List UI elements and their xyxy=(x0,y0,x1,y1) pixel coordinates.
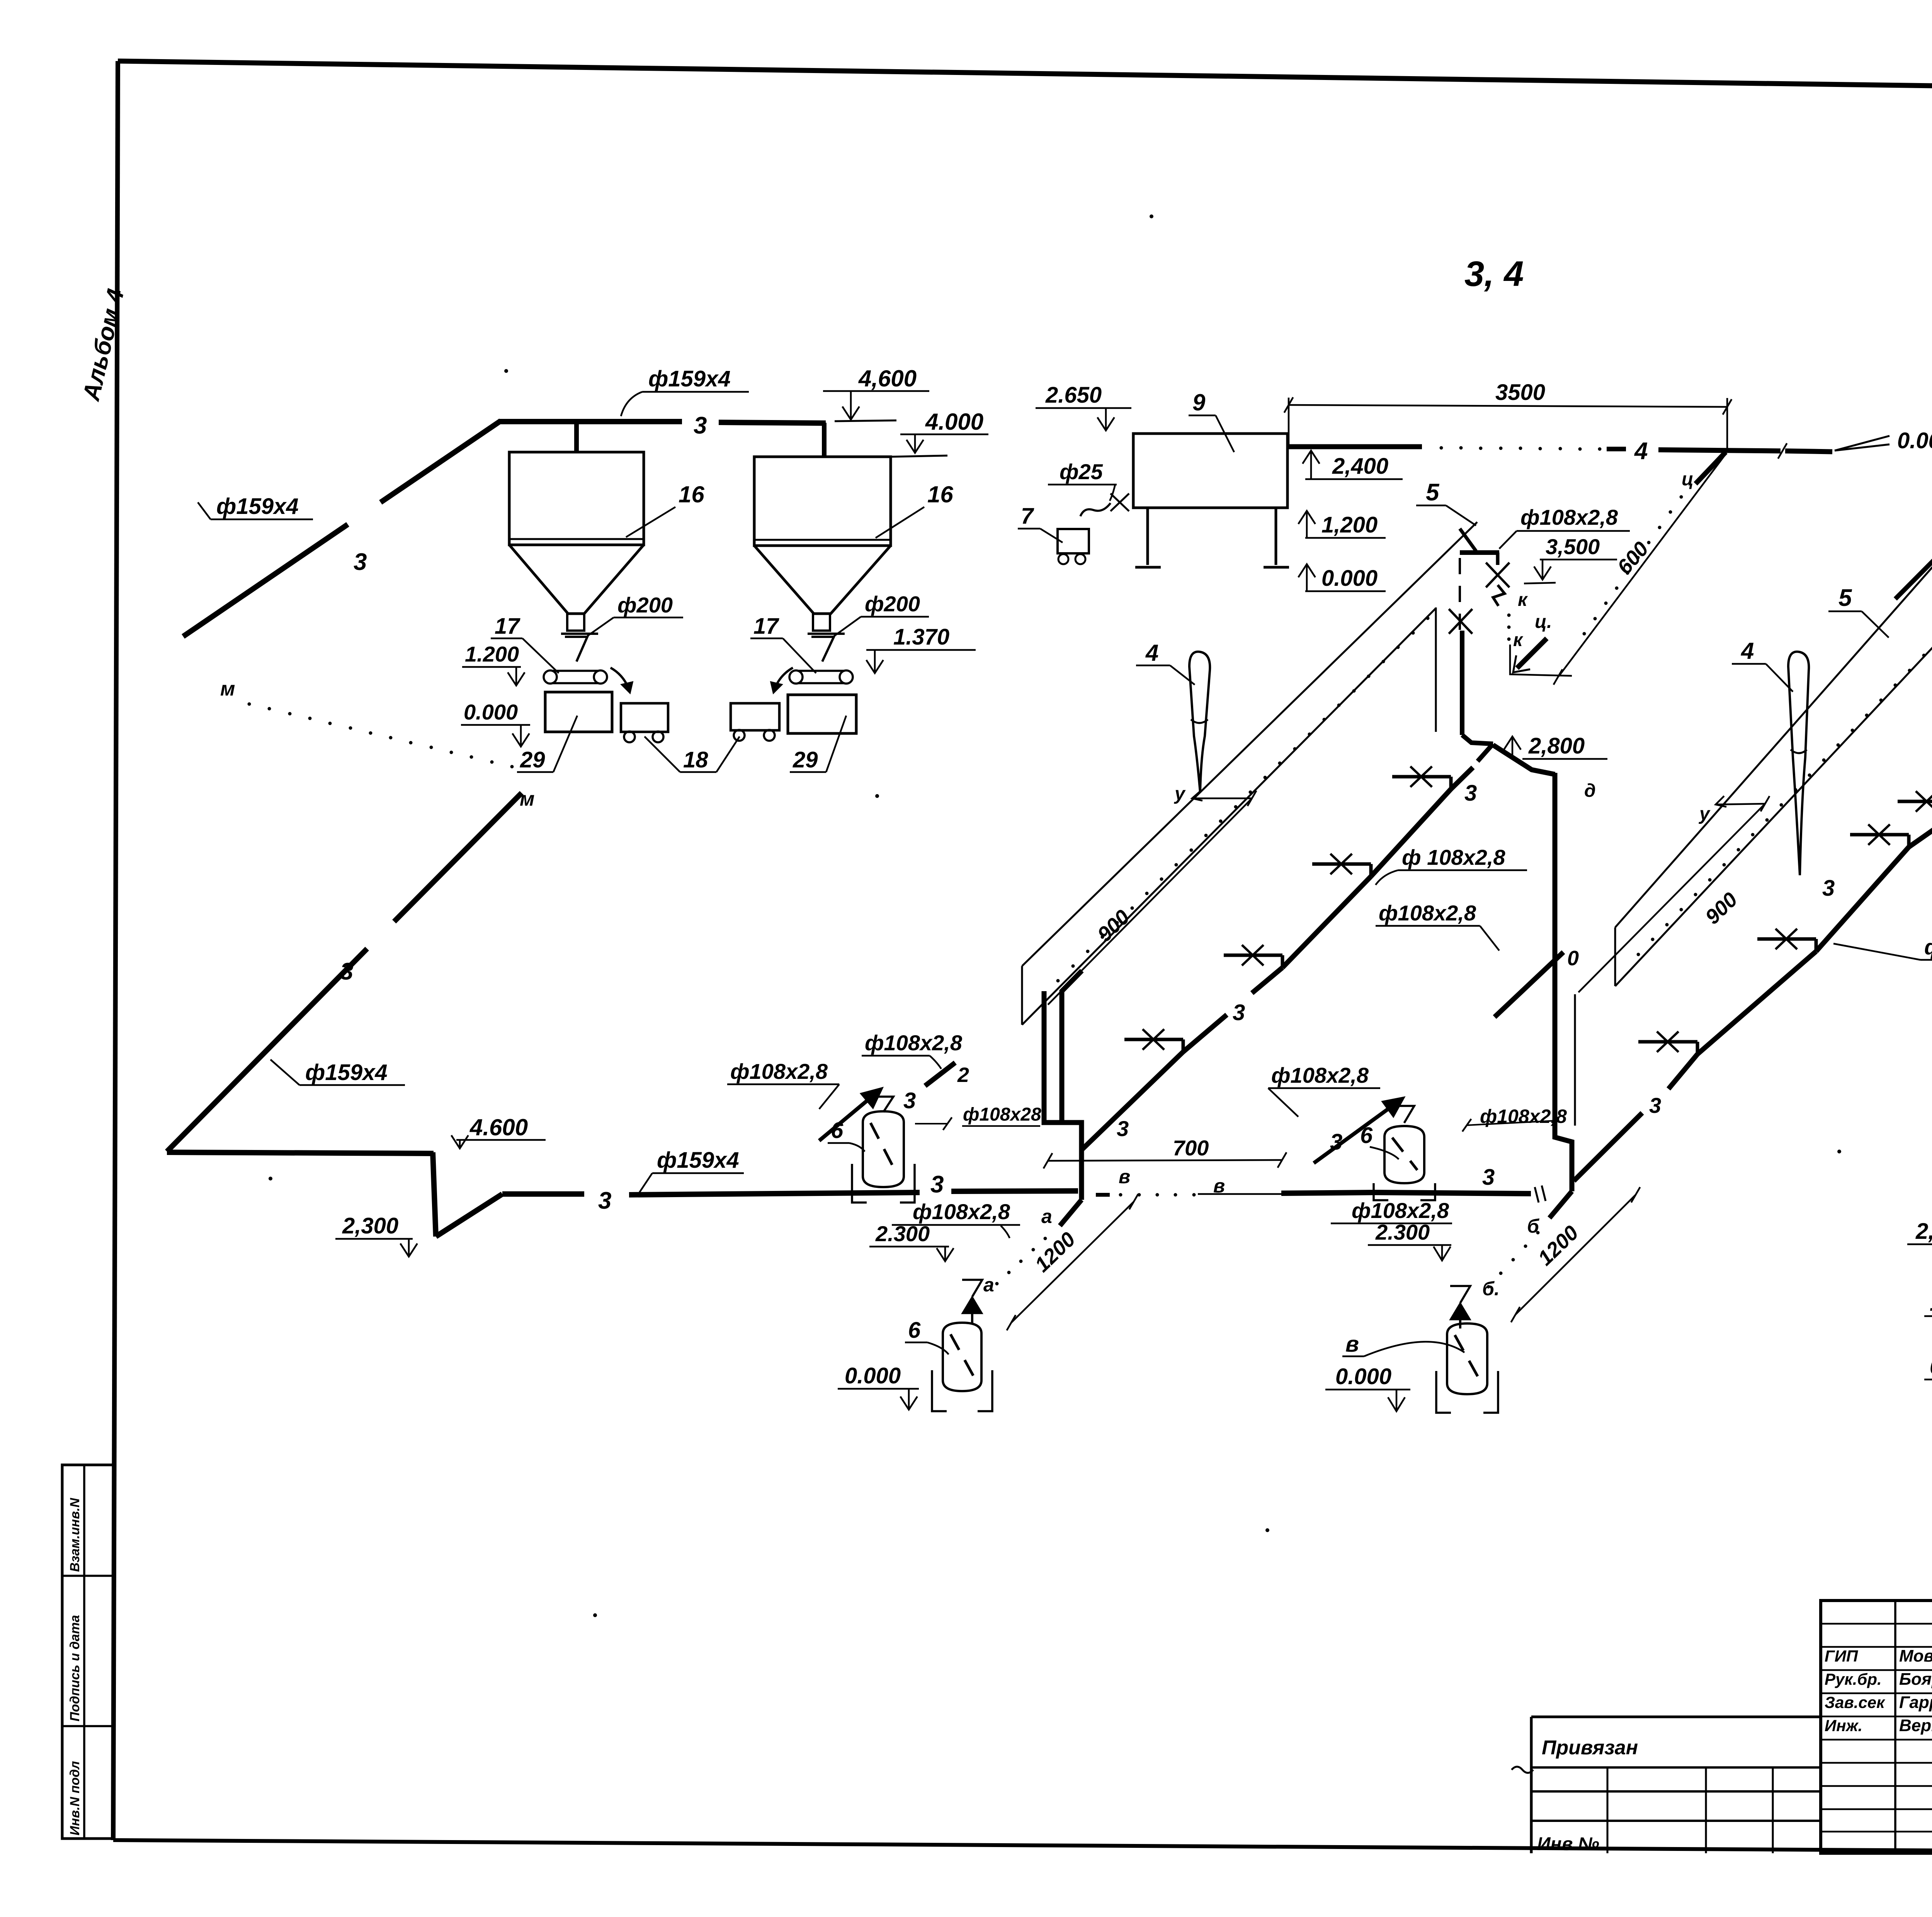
svg-text:Инж.: Инж. xyxy=(1825,1716,1862,1735)
second valve left cluster xyxy=(1449,609,1473,621)
tank 6 upper right xyxy=(1384,1126,1424,1183)
svg-text:3: 3 xyxy=(340,958,353,985)
tap valve 1 left branch xyxy=(1182,1039,1185,1052)
cart 7 left xyxy=(1058,529,1089,553)
thin diagonal from vent base right xyxy=(1578,804,1765,992)
svg-text:0.000: 0.000 xyxy=(464,700,518,724)
svg-text:9: 9 xyxy=(1192,390,1206,415)
tap valve 3 right branch xyxy=(1907,835,1911,847)
svg-text:4: 4 xyxy=(1145,640,1158,666)
svg-text:1.370: 1.370 xyxy=(893,624,949,650)
svg-text:4.600: 4.600 xyxy=(469,1114,528,1140)
svg-text:6: 6 xyxy=(908,1318,921,1343)
svg-text:700: 700 xyxy=(1173,1136,1209,1160)
svg-text:2.300: 2.300 xyxy=(875,1221,930,1246)
svg-text:3: 3 xyxy=(694,412,707,439)
dim 700 xyxy=(1048,1160,1282,1161)
svg-text:Инв.N подл: Инв.N подл xyxy=(68,1761,82,1835)
svg-text:1200: 1200 xyxy=(1031,1228,1080,1277)
wall band left end verticals xyxy=(1021,966,1023,1025)
svg-text:1,200: 1,200 xyxy=(1321,512,1378,538)
svg-text:2,400: 2,400 xyxy=(1332,454,1388,479)
wall band left dotted axis xyxy=(1042,993,1045,997)
pipe 4 main from unit 9 xyxy=(1288,444,1422,449)
svg-text:Подпись и дата: Подпись и дата xyxy=(68,1615,82,1721)
svg-text:ф159х4: ф159х4 xyxy=(657,1148,739,1173)
svg-text:Мовтаников: Мовтаников xyxy=(1899,1647,1932,1665)
svg-text:ф159х4: ф159х4 xyxy=(648,366,731,391)
tilde mark xyxy=(1512,1767,1533,1773)
valve at unit9 inlet xyxy=(1111,493,1120,511)
svg-text:3: 3 xyxy=(1233,1000,1245,1025)
node c stub on 4 main xyxy=(1696,452,1726,484)
svg-text:4: 4 xyxy=(1634,438,1648,464)
svg-text:2,300: 2,300 xyxy=(342,1213,398,1238)
svg-text:а: а xyxy=(1041,1206,1052,1227)
dim 3500 xyxy=(1289,405,1727,407)
svg-text:ф108х2,8: ф108х2,8 xyxy=(1352,1198,1449,1223)
feed arrow right xyxy=(774,668,793,692)
hopper 16 right funnel xyxy=(754,546,891,614)
svg-text:м: м xyxy=(520,788,534,810)
svg-text:Гаррес: Гаррес xyxy=(1899,1693,1932,1712)
node b stub xyxy=(1549,1191,1572,1218)
svg-text:0.000: 0.000 xyxy=(845,1363,901,1388)
pipe drop to hopper 1 xyxy=(574,423,579,452)
weld marks on main xyxy=(1535,1187,1539,1203)
svg-text:7: 7 xyxy=(1021,503,1034,529)
svg-text:ф108х2,8: ф108х2,8 xyxy=(1924,935,1932,959)
svg-text:2,650: 2,650 xyxy=(1915,1219,1932,1244)
conveyor 17 left xyxy=(552,670,599,672)
title block staff table xyxy=(1821,1601,1932,1853)
tap valve 4 left branch xyxy=(1449,777,1453,789)
riser bottom elbow left xyxy=(1462,735,1493,744)
bin 29 right xyxy=(788,695,856,733)
scan specks xyxy=(1150,214,1153,218)
svg-text:Рук.бр.: Рук.бр. xyxy=(1825,1670,1882,1688)
wall band right top edge xyxy=(1615,497,1932,927)
svg-text:ф159х4: ф159х4 xyxy=(305,1060,388,1085)
pipe system 3 feed horizontal xyxy=(498,419,682,424)
hopper 16 left outlet xyxy=(567,614,584,631)
svg-text:3: 3 xyxy=(930,1171,944,1198)
fill pipe arrow upper right xyxy=(1314,1099,1402,1163)
conveyor 17 right xyxy=(798,670,845,672)
svg-text:4: 4 xyxy=(1741,638,1754,664)
pipe system 3 feed diagonal xyxy=(183,524,348,636)
pipe system 3 long diagonal xyxy=(394,793,522,922)
riser top elbow to 2.800 level left bay xyxy=(1493,745,1555,774)
svg-text:ф108х2,8: ф108х2,8 xyxy=(730,1059,828,1084)
valve check node b xyxy=(1450,1286,1470,1303)
junction loop right leg left assembly xyxy=(1062,971,1082,1123)
riser cluster right - top elbow xyxy=(1895,542,1932,599)
svg-text:ф 108х2,8: ф 108х2,8 xyxy=(1402,845,1505,869)
tap valve 3 left branch xyxy=(1369,864,1373,876)
svg-text:ф108х2,8: ф108х2,8 xyxy=(1379,901,1476,925)
check valve upper left tank xyxy=(873,1097,893,1112)
svg-text:3: 3 xyxy=(354,549,367,575)
bin 29 left xyxy=(545,692,612,732)
svg-text:ф25: ф25 xyxy=(1060,459,1103,484)
svg-text:ф108х28: ф108х28 xyxy=(963,1104,1041,1125)
secondary riser 2 left xyxy=(925,1063,955,1086)
svg-text:ф108х2,8: ф108х2,8 xyxy=(1520,505,1618,529)
pipe main between junctions xyxy=(1281,1192,1376,1193)
svg-text:900: 900 xyxy=(1093,905,1134,946)
svg-text:Бояршинова: Бояршинова xyxy=(1899,1670,1932,1689)
svg-text:Зав.сек: Зав.сек xyxy=(1825,1693,1885,1711)
fill pipe arrow upper left xyxy=(819,1090,880,1141)
hopper 16 right outlet xyxy=(813,614,830,631)
svg-text:3: 3 xyxy=(598,1187,611,1214)
dim extension lines xyxy=(1288,398,1290,444)
svg-text:3: 3 xyxy=(1117,1116,1129,1141)
svg-text:16: 16 xyxy=(927,481,953,507)
svg-text:к: к xyxy=(1518,590,1528,610)
dim 1200 left xyxy=(1011,1202,1134,1323)
pipe horizontal 4.600 level xyxy=(167,1152,434,1153)
stub arrow left cluster xyxy=(1517,638,1547,668)
svg-text:ГИП: ГИП xyxy=(1825,1647,1858,1665)
tank 6 lower left xyxy=(943,1323,981,1391)
svg-text:0.000: 0.000 xyxy=(1930,1354,1932,1379)
pipe system 3 lower horizontal xyxy=(502,1191,584,1197)
svg-text:ф200: ф200 xyxy=(617,593,673,617)
svg-text:3: 3 xyxy=(1649,1093,1661,1118)
svg-text:3: 3 xyxy=(1464,781,1477,806)
svg-text:ф108х2,8: ф108х2,8 xyxy=(913,1199,1010,1224)
slope 0.005 label xyxy=(1835,436,1889,451)
hopper2 top extension line xyxy=(891,456,947,457)
svg-text:ц.: ц. xyxy=(1535,612,1552,632)
pipe 4 main middle xyxy=(1658,450,1781,451)
svg-text:18: 18 xyxy=(683,747,708,772)
branch 3 left bay spine xyxy=(1082,1052,1183,1150)
cart 18 left xyxy=(621,703,668,732)
svg-text:4,600: 4,600 xyxy=(858,366,917,391)
svg-text:2.300: 2.300 xyxy=(1375,1220,1430,1244)
svg-text:2: 2 xyxy=(957,1063,969,1087)
tap valve 1 right branch xyxy=(1696,1042,1699,1054)
svg-text:600: 600 xyxy=(1613,538,1653,579)
wall band left top edge xyxy=(1022,522,1477,966)
dotted vertical left cluster xyxy=(1507,614,1511,617)
cart 18 right xyxy=(731,703,779,730)
svg-text:5: 5 xyxy=(1838,585,1852,611)
svg-text:а: а xyxy=(983,1274,994,1296)
wall band right bottom edge xyxy=(1615,603,1932,986)
svg-text:29: 29 xyxy=(793,747,818,772)
tank 6 lower right xyxy=(1447,1323,1487,1394)
pipe drop to hopper 2 xyxy=(822,423,827,457)
squiggle pipe to cart 7 xyxy=(1080,503,1111,516)
svg-text:900: 900 xyxy=(1701,888,1742,929)
svg-text:0: 0 xyxy=(1567,947,1579,970)
svg-text:16: 16 xyxy=(679,481,704,507)
svg-text:3, 4: 3, 4 xyxy=(1464,254,1524,294)
svg-text:0.000: 0.000 xyxy=(1321,566,1378,591)
drawing frame left border xyxy=(113,61,118,1840)
drawing frame top border xyxy=(118,61,1932,95)
svg-text:ф108х2,8: ф108х2,8 xyxy=(1271,1063,1369,1087)
tank 6 upper left xyxy=(863,1111,904,1187)
svg-text:д: д xyxy=(1584,781,1596,801)
unit 9 box xyxy=(1133,434,1287,508)
wall band right dotted axis xyxy=(1637,953,1640,956)
svg-text:ц: ц xyxy=(1682,469,1694,490)
svg-text:ф159х4: ф159х4 xyxy=(216,494,299,519)
svg-text:3: 3 xyxy=(1822,876,1835,901)
vent 4 right xyxy=(1788,651,1809,875)
riser cluster left - valve jog xyxy=(1496,553,1500,565)
svg-text:3500: 3500 xyxy=(1495,380,1545,405)
svg-text:1.200: 1.200 xyxy=(465,642,519,666)
pipe drop 2.300 step xyxy=(433,1152,436,1237)
hopper 16 right body xyxy=(754,457,891,546)
svg-text:Вертикова: Вертикова xyxy=(1899,1716,1932,1735)
svg-text:3: 3 xyxy=(903,1088,916,1113)
svg-text:Альбом 4: Альбом 4 xyxy=(78,286,129,404)
dashed vertical left cluster xyxy=(1459,558,1461,630)
valve check node a xyxy=(962,1280,982,1297)
svg-text:29: 29 xyxy=(520,747,545,772)
vent 4 left xyxy=(1189,651,1210,792)
pipe 4 dotted section xyxy=(1440,446,1443,450)
dotted line b xyxy=(1536,1231,1540,1235)
svg-text:6: 6 xyxy=(831,1118,844,1143)
svg-text:3,500: 3,500 xyxy=(1546,534,1600,559)
svg-text:в: в xyxy=(1119,1166,1130,1187)
svg-text:1.200: 1.200 xyxy=(1930,1291,1932,1316)
junction loop pipe left assembly xyxy=(1044,991,1082,1200)
svg-text:6: 6 xyxy=(1360,1123,1373,1148)
riser thin parallel right junction xyxy=(1574,994,1576,1126)
svg-text:0.000: 0.000 xyxy=(1335,1364,1391,1389)
svg-text:4.000: 4.000 xyxy=(925,409,983,435)
tap valve 2 right branch xyxy=(1815,939,1818,951)
dotted node v line and 700 dim xyxy=(1096,1193,1110,1197)
svg-text:Инв.№: Инв.№ xyxy=(1537,1834,1599,1854)
svg-text:к: к xyxy=(1513,630,1524,650)
node a stub xyxy=(1060,1200,1082,1226)
thin elbow below stub left xyxy=(1510,645,1572,676)
svg-text:5: 5 xyxy=(1426,479,1440,506)
svg-text:17: 17 xyxy=(495,614,520,639)
hopper 16 left funnel xyxy=(509,545,644,614)
svg-text:1200: 1200 xyxy=(1534,1221,1583,1270)
svg-text:0.005: 0.005 xyxy=(1897,428,1932,453)
svg-text:3: 3 xyxy=(1482,1165,1495,1190)
svg-text:Взам.инв.N: Взам.инв.N xyxy=(68,1497,82,1572)
junction loop pipe right assembly xyxy=(1555,773,1572,1191)
riser cluster left - top elbow xyxy=(1460,550,1499,555)
wall band left bottom edge xyxy=(1022,608,1436,1025)
thin diagonal from vent base left xyxy=(1048,798,1252,1005)
dotted line a xyxy=(1044,1237,1047,1240)
riser vertical left cluster xyxy=(1460,631,1464,735)
svg-text:ф108х2,8: ф108х2,8 xyxy=(865,1031,963,1055)
svg-text:у: у xyxy=(1699,804,1711,824)
check valve upper right tank xyxy=(1394,1106,1414,1123)
hopper 16 left body xyxy=(509,452,644,545)
drawing frame bottom border xyxy=(113,1840,1932,1854)
svg-text:17: 17 xyxy=(753,614,779,639)
left stamp column box xyxy=(62,1465,114,1839)
svg-text:3: 3 xyxy=(1330,1129,1342,1155)
wall band right end verticals xyxy=(1614,927,1616,986)
svg-text:м: м xyxy=(220,678,235,700)
svg-text:ф200: ф200 xyxy=(865,592,920,616)
svg-text:2,800: 2,800 xyxy=(1528,733,1585,759)
secondary riser 0 right xyxy=(1495,952,1563,1017)
feed arrow left xyxy=(611,668,630,692)
svg-text:Привязан: Привязан xyxy=(1542,1737,1638,1759)
svg-text:в: в xyxy=(1345,1332,1359,1357)
dim 1200 right xyxy=(1515,1195,1636,1315)
svg-text:б.: б. xyxy=(1482,1278,1500,1300)
svg-text:у: у xyxy=(1174,784,1186,804)
svg-text:2.650: 2.650 xyxy=(1045,383,1102,408)
privyazan table xyxy=(1531,1716,1821,1718)
dim 600 left with diagonal xyxy=(1559,454,1726,676)
tap valve 2 left branch xyxy=(1281,955,1284,968)
branch 3 right bay spine xyxy=(1574,1113,1642,1181)
dotted diagonal at cluster left xyxy=(1680,495,1683,499)
